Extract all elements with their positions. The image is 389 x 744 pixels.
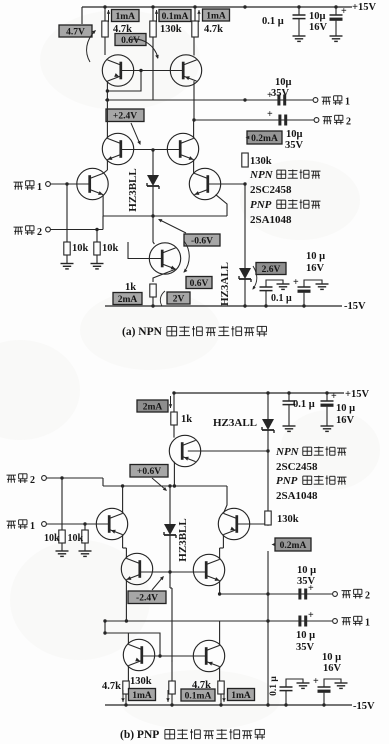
wire Q4 emitter down (a) [193, 160, 195, 173]
svg-text:130k: 130k [130, 676, 152, 687]
wire Q3 collector up (a) [106, 100, 108, 138]
svg-text:NPN: NPN [275, 446, 300, 458]
resistor 1k (b) [173, 393, 175, 412]
svg-text:1mA: 1mA [132, 691, 152, 701]
transistor Q2 top-right PNP (a) [170, 55, 201, 86]
svg-text:10μ: 10μ [286, 129, 303, 140]
wire output1 horizontal line (a) [105, 99, 313, 101]
wire output1 line (b) [105, 620, 332, 622]
wire input2 riser (a) [102, 216, 104, 230]
current label 1mA (a-left) [112, 10, 140, 22]
svg-text:PNP: PNP [250, 199, 272, 211]
svg-text:130k: 130k [277, 514, 299, 525]
voltage label -2.4V (b) [128, 591, 166, 604]
svg-text:HZ3ALL: HZ3ALL [219, 262, 231, 306]
capacitor 0.1u bottom (b) [285, 691, 287, 705]
svg-text:+: + [293, 277, 299, 288]
label 输出1 (b) [342, 617, 352, 619]
voltage label -0.6V (a) [184, 234, 220, 246]
resistor 1k (a) [150, 284, 156, 297]
transistor Q14 bottom-right (b) [193, 640, 224, 671]
wire +15V top rail (b) [174, 392, 344, 394]
current label 1mA (b-left) [129, 689, 156, 701]
svg-text:0.1mA: 0.1mA [162, 12, 189, 22]
current label 0.1mA (b) [181, 689, 215, 701]
wire Q10 collector down (b) [222, 535, 224, 548]
label 输入2 (b) [7, 474, 17, 476]
wire Q1 diode loop (a) [107, 71, 141, 92]
svg-text:10k: 10k [44, 533, 60, 544]
wire Q8 collector down (b) [173, 462, 175, 486]
svg-text:-15V: -15V [353, 701, 375, 712]
arrow arc HZ3ALL (a) [253, 266, 257, 289]
voltage label 0.6V (a-left) [115, 34, 146, 46]
svg-text:+15V: +15V [345, 389, 369, 400]
svg-text:2: 2 [37, 227, 42, 238]
current label 1mA (a-right) [203, 9, 230, 21]
svg-text:-2.4V: -2.4V [136, 594, 158, 604]
wire Q7 emitter to 1k (a) [153, 269, 176, 282]
wire input2 riser (b) [102, 478, 104, 486]
svg-text:1mA: 1mA [206, 11, 226, 21]
svg-text:+15V: +15V [352, 2, 376, 13]
svg-text:2SC2458: 2SC2458 [276, 461, 318, 473]
svg-text:10 μ: 10 μ [336, 403, 355, 414]
svg-text:2mA: 2mA [118, 295, 138, 305]
svg-text:16V: 16V [336, 415, 355, 426]
svg-text:35V: 35V [285, 140, 304, 151]
current label 2mA (a) [113, 293, 142, 305]
resistor 4.7k right (a) [194, 7, 196, 21]
svg-text:4.7k: 4.7k [192, 680, 211, 691]
svg-text:2mA: 2mA [143, 402, 163, 412]
svg-text:4.7V: 4.7V [66, 27, 85, 37]
wire Q10 base to bias rail (b) [237, 523, 268, 525]
node top rail joints (a) [103, 5, 106, 8]
svg-text:0.1mA: 0.1mA [185, 691, 212, 701]
voltage label 0.6V (a-Q7) [186, 277, 212, 289]
arrow arc over Q1 [128, 39, 158, 58]
wire Q8 base to zener rail (b) [188, 450, 268, 452]
current arrow 1mA (a-right) [198, 10, 200, 22]
resistor 10k input2 (a) [96, 230, 98, 243]
transistor Q13 bottom-left diode (b) [123, 639, 154, 670]
transistor Q11 cascode-left (b) [121, 553, 152, 584]
wire Q13 emitter down (b) [127, 666, 129, 681]
transistor Q9 input-left (b) [96, 508, 127, 539]
wire input2 (a) [50, 229, 103, 231]
svg-text:10 μ: 10 μ [297, 565, 316, 576]
current label 0.2mA (a) [247, 131, 282, 144]
svg-text:2: 2 [346, 117, 351, 128]
wire +15V top rail (a) [82, 6, 352, 8]
transistor Q4 cascode-right (a) [167, 133, 198, 164]
svg-text:2V: 2V [173, 294, 185, 304]
svg-text:PNP: PNP [276, 475, 298, 487]
capacitor 10u/16V bottom (b) [323, 693, 325, 705]
wire emitter join (b) [103, 485, 227, 487]
svg-text:10 μ: 10 μ [296, 630, 315, 641]
terminal output2 (a) [314, 118, 319, 123]
transistor Q7 current source (a) [149, 243, 180, 274]
current arrow 0.1mA (a) [156, 10, 158, 22]
capacitor 0.1u bottom (a) [265, 291, 267, 306]
voltage label 2V (a) [167, 292, 190, 304]
terminal output2 (b) [333, 592, 338, 597]
current arrow down (b-right) [223, 690, 225, 702]
wire Q9 emitter up (b) [122, 486, 124, 513]
svg-text:16V: 16V [323, 663, 342, 674]
svg-text:HZ3BLL: HZ3BLL [127, 168, 139, 211]
svg-text:1k: 1k [125, 282, 136, 293]
label 输出1 (a) [322, 96, 332, 98]
svg-text:2.6V: 2.6V [262, 265, 281, 275]
transistor Q12 cascode-right (b) [193, 554, 224, 585]
zener HZ3BLL (b) [169, 486, 171, 524]
svg-text:16V: 16V [306, 263, 325, 274]
wire Q6 emitter down (a) [216, 195, 227, 216]
wire stub to 4.7V box (a) [81, 7, 83, 24]
svg-text:0.6V: 0.6V [121, 36, 140, 46]
svg-text:10 μ: 10 μ [306, 251, 325, 262]
wire -15V bottom rail (b) [105, 704, 352, 706]
svg-text:2: 2 [365, 591, 370, 602]
resistor 4.7k left (a) [104, 7, 106, 21]
svg-text:2SC2458: 2SC2458 [250, 184, 292, 196]
wire input2 (b) [46, 477, 103, 479]
arrow +2.4V to cascode bases [131, 123, 140, 144]
capacitor 10u/16V rail (b) [326, 393, 328, 401]
terminal output1 (b) [333, 619, 338, 624]
wire Q3 emitter to input stage (a) [106, 160, 108, 170]
wire Q1-Q2 base join (a) [121, 70, 183, 72]
ground 10k-1 (b) [56, 550, 69, 552]
arrow -0.6V to node (a) [159, 220, 186, 234]
wire output2 line (b) [220, 593, 332, 595]
wire Q12 collector down (b) [219, 581, 221, 594]
wire Q13 collector (b) [104, 621, 106, 633]
wire Q11 collector down (b) [125, 580, 127, 621]
wire 130k riser (b) [171, 588, 173, 662]
wire Q6 base to bias rail (a) [208, 183, 245, 185]
resistor 130k top (a) [152, 7, 154, 21]
svg-text:(b) PNP: (b) PNP [120, 729, 159, 741]
svg-text:0.6V: 0.6V [190, 279, 209, 289]
resistor 10k input1 (b) [84, 524, 86, 530]
current arrow 2mA (b) [170, 396, 172, 408]
svg-text:10k: 10k [68, 533, 84, 544]
current label 0.2mA (b) [275, 538, 311, 551]
arrow +0.6V to node (b) [152, 478, 166, 490]
svg-text:0.2mA: 0.2mA [251, 134, 278, 144]
svg-text:4.7k: 4.7k [204, 24, 223, 35]
svg-text:NPN: NPN [249, 169, 274, 181]
label 输出2 (a) [323, 116, 333, 118]
label 输入2 (a) [14, 226, 24, 228]
svg-text:+: + [331, 391, 337, 402]
svg-text:1: 1 [37, 182, 42, 193]
svg-text:4.7k: 4.7k [102, 681, 121, 692]
wire Q10 emitter up (b) [223, 486, 227, 513]
svg-text:HZ3BLL: HZ3BLL [177, 518, 189, 561]
arrow arc 2V [160, 291, 165, 306]
svg-text:1: 1 [365, 618, 370, 629]
wire Q2 bottom lead down to output2 corner (a) [193, 81, 195, 120]
arrow arc around Q7 [184, 241, 189, 272]
wire Q6 collector (a) [193, 172, 196, 174]
svg-text:2SA1048: 2SA1048 [276, 490, 318, 502]
wire Q12 emitter up (b) [219, 548, 221, 559]
wire Q7 collector up (a) [153, 216, 154, 244]
ground 10k-1 (a) [61, 263, 74, 265]
svg-text:1k: 1k [181, 414, 192, 425]
svg-text:35V: 35V [296, 642, 315, 653]
transistor Q3 cascode-left (a) [102, 133, 133, 164]
transistor Q10 input-right (b) [218, 508, 249, 539]
current arrow down (b-mid) [167, 690, 169, 702]
svg-text:0.2mA: 0.2mA [280, 541, 307, 551]
label 输出2 (b) [342, 590, 352, 592]
transistor Q1 top-left PNP (a) [102, 55, 133, 86]
svg-text:1: 1 [30, 521, 35, 532]
wire Q1 collector down (a) [106, 81, 108, 100]
wire bias rail bottom (b) [267, 551, 269, 705]
svg-text:+0.6V: +0.6V [137, 467, 161, 477]
wire Q4 collector up (a) [193, 120, 195, 138]
terminal output1 (a) [313, 98, 318, 103]
svg-text:10μ: 10μ [275, 77, 292, 88]
wire Q9 collector down (b) [122, 535, 124, 548]
zener HZ3ALL (b) [267, 393, 269, 419]
voltage label 4.7V [59, 25, 92, 37]
terminal input1 (b) [42, 522, 47, 527]
label 输入1 (b) [7, 520, 17, 522]
ground 10k-2 (a) [91, 263, 104, 265]
capacitor 10u/35V output1 (b) [298, 616, 301, 627]
zener HZ3BLL (a) [152, 150, 154, 175]
svg-text:2SA1048: 2SA1048 [250, 214, 292, 226]
resistor 130k bias (a) [242, 153, 248, 167]
svg-text:1mA: 1mA [231, 691, 251, 701]
current label 2mA (b) [137, 400, 168, 412]
wire Q5 emitter down (a) [102, 195, 104, 216]
svg-text:0.1 μ: 0.1 μ [262, 16, 284, 27]
wire -15V bottom rail (a) [105, 305, 342, 307]
wire input1 to base (b) [46, 523, 108, 525]
svg-text:+: + [308, 583, 314, 594]
svg-text:0.1 μ: 0.1 μ [271, 293, 292, 304]
resistor 130k bias (b) [265, 511, 271, 525]
svg-text:0.1 μ: 0.1 μ [269, 676, 279, 696]
voltage label +0.6V (b) [130, 465, 168, 478]
terminal input2 (a) [46, 227, 51, 232]
wire Q14 emitter down (b) [219, 667, 221, 681]
wire Q13 diode loop (b) [105, 633, 160, 656]
svg-text:HZ3ALL: HZ3ALL [213, 417, 257, 429]
zener HZ3ALL (a) [244, 184, 246, 268]
voltage label +2.4V (a) [106, 109, 144, 122]
resistor 10k input1 (a) [66, 184, 68, 242]
current arrow 1mA (a-left) [108, 10, 110, 22]
voltage label 2.6V (a) [256, 263, 286, 275]
terminal input2 (b) [42, 476, 47, 481]
svg-text:10k: 10k [72, 243, 89, 254]
svg-text:-15V: -15V [344, 301, 366, 312]
svg-text:10μ: 10μ [309, 11, 326, 22]
capacitor 10u/16V bottom (a) [303, 293, 305, 306]
current arrow down (b-left) [122, 690, 124, 702]
wire cascode base join (a) [121, 149, 180, 151]
svg-text:2: 2 [30, 475, 35, 486]
svg-text:16V: 16V [309, 22, 328, 33]
svg-text:+: + [267, 109, 273, 120]
svg-text:0.1 μ: 0.1 μ [293, 399, 315, 410]
current label 1mA (b-right) [228, 689, 255, 701]
svg-text:1: 1 [345, 97, 350, 108]
transistor Q5 input-left (a) [77, 168, 108, 199]
wire Q7 base (a) [128, 242, 162, 259]
capacitor 0.1u rail (b) [288, 393, 290, 401]
transistor Q8 current source (b) [169, 435, 200, 466]
current label 0.1mA (a) [159, 10, 191, 22]
arrow -2.4V to base wire (b) [152, 577, 163, 590]
svg-text:10 μ: 10 μ [322, 652, 341, 663]
resistor 4.7k bottom-right (b) [218, 681, 224, 694]
wire emitter join (a) [103, 215, 227, 217]
wire output2 horizontal line (a) [194, 119, 314, 121]
svg-text:+2.4V: +2.4V [113, 112, 137, 122]
svg-text:+: + [308, 610, 314, 621]
label 输入1 (a) [14, 181, 24, 183]
svg-text:10k: 10k [102, 243, 119, 254]
transistor Q6 input-right (a) [189, 168, 220, 199]
wire cascode base join (b) [140, 571, 206, 573]
svg-text:+: + [267, 90, 273, 101]
capacitor 0.1u rail (a) [298, 7, 300, 15]
arrow from 4.7V to resistor [87, 31, 95, 62]
wire Q13-Q14 base join (b) [142, 655, 206, 657]
svg-text:130k: 130k [250, 156, 272, 167]
svg-text:+: + [341, 6, 347, 17]
svg-text:-0.6V: -0.6V [191, 236, 213, 246]
capacitor 10u/16V rail (a) [335, 7, 337, 15]
resistor 130k bottom (b) [171, 660, 173, 681]
svg-text:1mA: 1mA [115, 12, 135, 22]
svg-text:+: + [313, 676, 319, 687]
wire input1 to base (a) [50, 183, 88, 185]
resistor 4.7k bottom-left (b) [123, 681, 129, 694]
ground 10k-2 (b) [79, 550, 92, 552]
resistor 10k input2 (b) [61, 478, 63, 530]
svg-text:130k: 130k [160, 24, 182, 35]
svg-text:(a) NPN: (a) NPN [122, 326, 163, 338]
terminal input1 (a) [46, 182, 51, 187]
wire Q11 emitter up (b) [125, 548, 127, 558]
wire Q14 top lead (b) [219, 621, 221, 645]
